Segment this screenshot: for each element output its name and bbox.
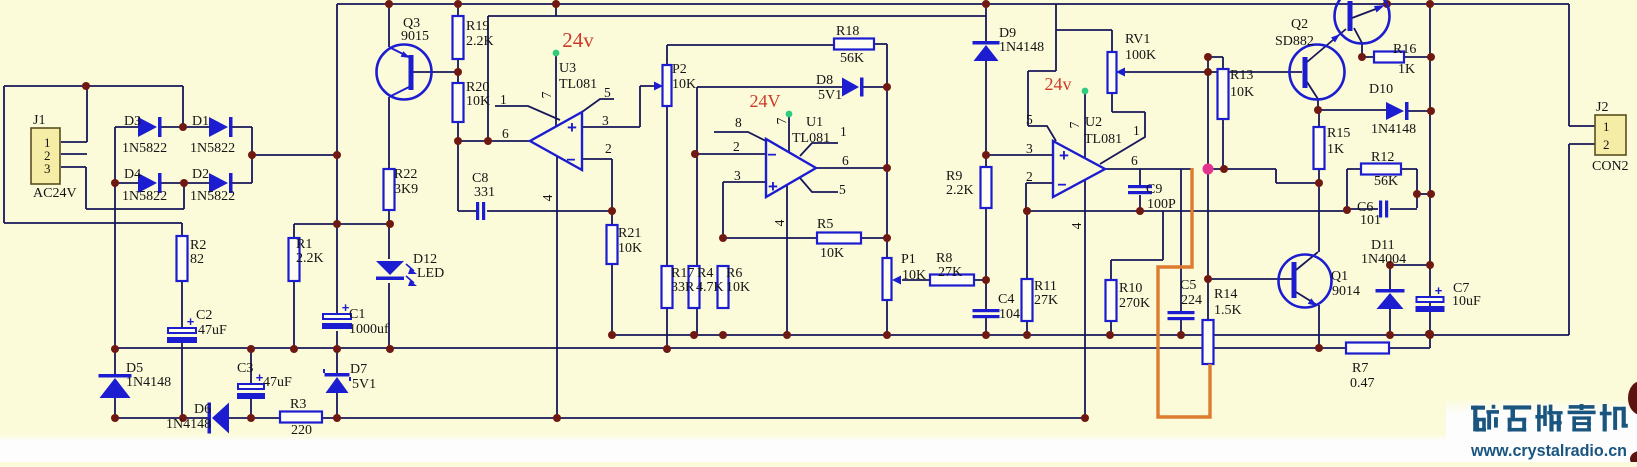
svg-text:6: 6 — [1131, 153, 1138, 168]
svg-text:3: 3 — [44, 161, 51, 176]
svg-text:1N4148: 1N4148 — [999, 40, 1044, 55]
svg-text:104: 104 — [999, 307, 1020, 322]
svg-text:www.crystalradio.cn: www.crystalradio.cn — [1470, 442, 1627, 460]
svg-text:1000uf: 1000uf — [349, 322, 389, 337]
svg-text:3: 3 — [734, 168, 741, 183]
svg-text:10K: 10K — [672, 77, 696, 92]
svg-text:U2: U2 — [1085, 115, 1102, 130]
svg-text:R11: R11 — [1034, 279, 1057, 294]
svg-text:R19: R19 — [466, 19, 489, 34]
svg-text:−: − — [767, 147, 776, 164]
svg-text:56K: 56K — [840, 51, 864, 66]
svg-text:R17: R17 — [671, 266, 694, 281]
svg-text:6: 6 — [502, 126, 509, 141]
svg-text:1N5822: 1N5822 — [122, 141, 167, 156]
svg-text:2.2K: 2.2K — [946, 183, 974, 198]
svg-text:C3: C3 — [237, 361, 253, 376]
svg-text:R7: R7 — [1352, 361, 1368, 376]
svg-text:2: 2 — [605, 141, 612, 156]
svg-text:C9: C9 — [1146, 182, 1162, 197]
svg-text:C4: C4 — [998, 292, 1014, 307]
svg-text:1N4148: 1N4148 — [126, 375, 171, 390]
svg-text:R9: R9 — [946, 169, 962, 184]
svg-text:5: 5 — [1026, 112, 1033, 127]
svg-text:R8: R8 — [936, 251, 952, 266]
svg-text:5: 5 — [604, 85, 611, 100]
svg-text:1: 1 — [1603, 119, 1610, 134]
svg-text:1N5822: 1N5822 — [122, 189, 167, 204]
svg-text:1K: 1K — [1327, 142, 1344, 157]
svg-text:1K: 1K — [1398, 62, 1415, 77]
svg-text:1N5822: 1N5822 — [190, 189, 235, 204]
svg-text:1: 1 — [1133, 123, 1140, 138]
svg-text:3: 3 — [602, 113, 609, 128]
svg-text:SD882: SD882 — [1275, 34, 1314, 49]
svg-text:10K: 10K — [466, 94, 490, 109]
svg-text:AC24V: AC24V — [33, 186, 77, 201]
svg-text:4: 4 — [540, 194, 555, 201]
svg-text:1N5822: 1N5822 — [190, 141, 235, 156]
svg-text:1N4148: 1N4148 — [1371, 122, 1416, 137]
svg-text:D2: D2 — [192, 167, 209, 182]
svg-text:TL081: TL081 — [1084, 132, 1122, 147]
svg-text:RV1: RV1 — [1125, 32, 1150, 47]
svg-text:C2: C2 — [196, 308, 212, 323]
svg-text:7: 7 — [539, 91, 554, 98]
svg-text:10uF: 10uF — [1452, 294, 1481, 309]
svg-text:10K: 10K — [820, 246, 844, 261]
svg-text:C5: C5 — [1180, 278, 1196, 293]
svg-text:47uF: 47uF — [263, 375, 292, 390]
svg-text:R10: R10 — [1119, 281, 1142, 296]
svg-text:1: 1 — [500, 92, 507, 107]
svg-text:2: 2 — [1026, 169, 1033, 184]
svg-text:7: 7 — [1067, 121, 1082, 128]
svg-text:P2: P2 — [672, 62, 687, 77]
svg-text:Q1: Q1 — [1331, 269, 1348, 284]
svg-text:4: 4 — [1069, 222, 1084, 229]
svg-text:10K: 10K — [726, 280, 750, 295]
svg-text:+: + — [1059, 146, 1069, 165]
svg-text:D1: D1 — [192, 114, 209, 129]
svg-text:1N4004: 1N4004 — [1361, 252, 1406, 267]
svg-text:D5: D5 — [126, 361, 143, 376]
svg-text:C1: C1 — [349, 307, 365, 322]
svg-text:D12: D12 — [413, 252, 437, 267]
svg-text:LED: LED — [417, 266, 444, 281]
svg-text:10K: 10K — [618, 241, 642, 256]
svg-text:D8: D8 — [816, 73, 833, 88]
svg-text:U1: U1 — [806, 115, 823, 130]
svg-text:9015: 9015 — [401, 29, 429, 44]
svg-text:33R: 33R — [671, 280, 695, 295]
svg-text:TL081: TL081 — [559, 77, 597, 92]
svg-text:J2: J2 — [1596, 100, 1608, 115]
svg-text:100P: 100P — [1147, 197, 1176, 212]
svg-text:8: 8 — [735, 115, 742, 130]
svg-text:R18: R18 — [836, 24, 859, 39]
svg-text:1.5K: 1.5K — [1214, 303, 1242, 318]
svg-text:R22: R22 — [394, 167, 417, 182]
svg-text:27K: 27K — [938, 265, 962, 280]
svg-text:D7: D7 — [350, 362, 367, 377]
svg-text:5: 5 — [839, 182, 846, 197]
svg-text:R6: R6 — [726, 266, 742, 281]
svg-text:TL081: TL081 — [792, 131, 830, 146]
svg-text:3K9: 3K9 — [394, 182, 418, 197]
svg-text:27K: 27K — [1034, 293, 1058, 308]
svg-text:2.2K: 2.2K — [296, 251, 324, 266]
svg-text:R21: R21 — [618, 226, 641, 241]
svg-text:331: 331 — [474, 185, 495, 200]
svg-text:+: + — [1435, 283, 1443, 298]
svg-text:4: 4 — [772, 219, 787, 226]
svg-text:R16: R16 — [1393, 42, 1416, 57]
svg-text:24v: 24v — [562, 28, 594, 52]
svg-text:6: 6 — [842, 153, 849, 168]
svg-text:J1: J1 — [33, 113, 45, 128]
svg-text:1: 1 — [840, 124, 847, 139]
svg-text:−: − — [566, 152, 575, 169]
svg-text:2: 2 — [733, 139, 740, 154]
svg-text:R12: R12 — [1371, 150, 1394, 165]
svg-text:7: 7 — [774, 117, 789, 124]
svg-text:D4: D4 — [124, 167, 141, 182]
svg-text:R1: R1 — [296, 237, 312, 252]
svg-text:R5: R5 — [817, 217, 833, 232]
svg-text:9014: 9014 — [1332, 284, 1360, 299]
svg-text:10K: 10K — [1230, 85, 1254, 100]
svg-text:D11: D11 — [1371, 238, 1395, 253]
svg-text:U3: U3 — [559, 61, 576, 76]
svg-text:101: 101 — [1360, 213, 1381, 228]
svg-text:D3: D3 — [124, 114, 141, 129]
svg-text:82: 82 — [190, 252, 204, 267]
svg-text:224: 224 — [1181, 293, 1202, 308]
svg-text:3: 3 — [1026, 141, 1033, 156]
svg-text:−: − — [1057, 177, 1066, 194]
svg-text:R3: R3 — [290, 397, 306, 412]
svg-text:5V1: 5V1 — [818, 88, 842, 103]
svg-text:10K: 10K — [902, 268, 926, 283]
svg-text:R15: R15 — [1327, 126, 1350, 141]
svg-text:100K: 100K — [1125, 48, 1156, 63]
svg-text:2.2K: 2.2K — [466, 34, 494, 49]
svg-text:D10: D10 — [1369, 82, 1393, 97]
svg-text:24V: 24V — [750, 91, 781, 111]
svg-text:R4: R4 — [697, 266, 713, 281]
svg-text:+: + — [567, 118, 577, 137]
svg-text:CON2: CON2 — [1592, 159, 1629, 174]
svg-text:R2: R2 — [190, 238, 206, 253]
svg-text:56K: 56K — [1374, 174, 1398, 189]
svg-text:4.7K: 4.7K — [696, 280, 724, 295]
svg-text:R13: R13 — [1230, 68, 1253, 83]
svg-text:D6: D6 — [194, 402, 211, 417]
svg-text:270K: 270K — [1119, 296, 1150, 311]
svg-text:5V1: 5V1 — [352, 377, 376, 392]
svg-text:24v: 24v — [1045, 74, 1072, 94]
svg-text:+: + — [187, 314, 195, 329]
svg-text:C8: C8 — [472, 171, 488, 186]
svg-text:+: + — [768, 177, 778, 196]
svg-text:D9: D9 — [999, 26, 1016, 41]
svg-text:Q2: Q2 — [1291, 17, 1308, 32]
svg-text:R14: R14 — [1214, 287, 1237, 302]
svg-text:1N4148: 1N4148 — [166, 417, 211, 432]
svg-text:R20: R20 — [466, 80, 489, 95]
svg-text:2: 2 — [1603, 137, 1610, 152]
svg-text:47uF: 47uF — [198, 323, 227, 338]
svg-text:P1: P1 — [901, 252, 916, 267]
svg-text:0.47: 0.47 — [1350, 376, 1375, 391]
